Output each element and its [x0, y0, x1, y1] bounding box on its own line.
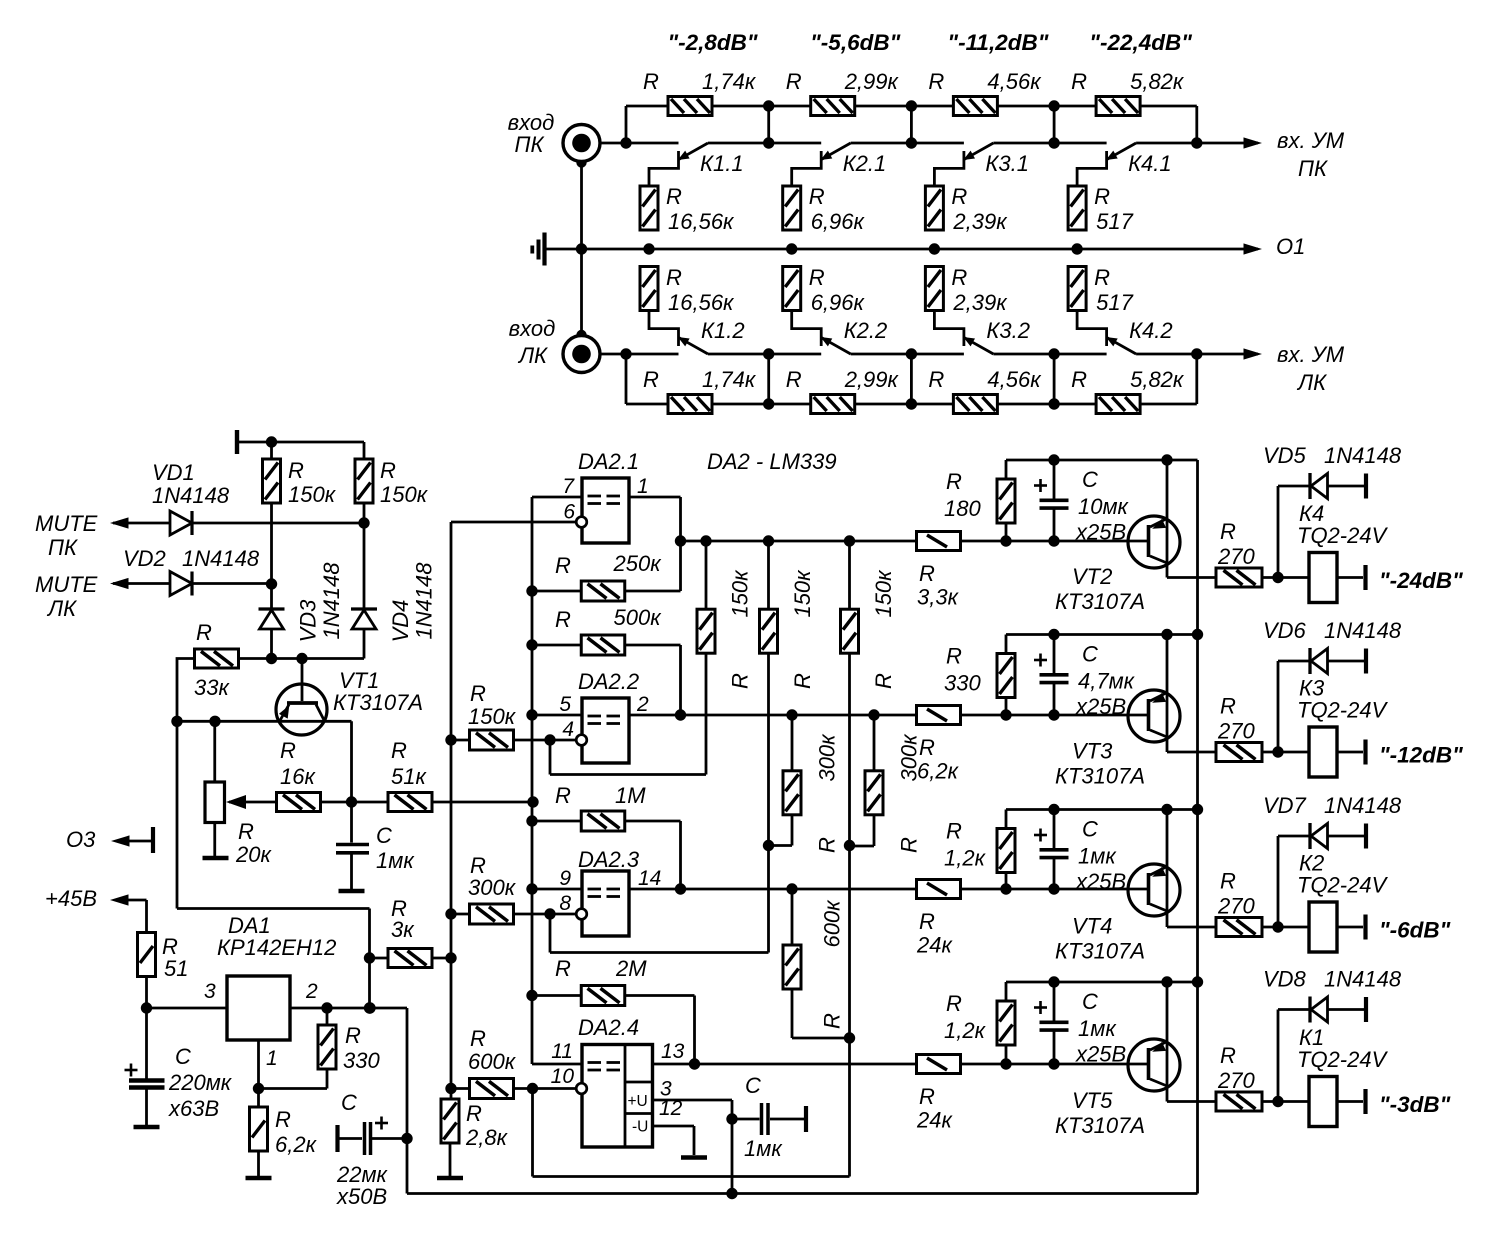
svg-text:8: 8: [559, 892, 571, 915]
svg-text:R: R: [1220, 694, 1236, 719]
svg-text:VD6: VD6: [1263, 618, 1307, 643]
svg-text:1,2к: 1,2к: [944, 846, 987, 871]
svg-text:R: R: [809, 184, 825, 209]
svg-text:"-3dB": "-3dB": [1379, 1092, 1451, 1117]
svg-text:1N4148: 1N4148: [1324, 793, 1402, 818]
svg-text:R: R: [809, 265, 825, 290]
svg-text:R: R: [1220, 519, 1236, 544]
svg-text:VD4: VD4: [388, 600, 413, 643]
svg-text:1N4148: 1N4148: [412, 562, 437, 640]
svg-text:DA2.2: DA2.2: [578, 669, 639, 694]
svg-text:"-11,2dB": "-11,2dB": [947, 30, 1048, 55]
svg-text:270: 270: [1217, 544, 1255, 569]
svg-text:6,96к: 6,96к: [811, 290, 866, 315]
svg-text:4: 4: [562, 718, 574, 741]
svg-text:VD8: VD8: [1263, 967, 1307, 992]
svg-text:33к: 33к: [194, 675, 230, 700]
svg-text:250к: 250к: [613, 551, 663, 576]
svg-text:"-24dB": "-24dB": [1379, 568, 1463, 593]
svg-text:R: R: [1094, 184, 1110, 209]
svg-text:КР142ЕН12: КР142ЕН12: [217, 935, 336, 960]
svg-text:R: R: [951, 184, 967, 209]
svg-text:4,7мк: 4,7мк: [1078, 669, 1136, 694]
svg-text:C: C: [1082, 817, 1098, 842]
svg-text:R: R: [820, 1013, 845, 1029]
svg-text:1мк: 1мк: [1078, 844, 1117, 869]
svg-text:5,82к: 5,82к: [1130, 367, 1185, 392]
svg-text:2,39к: 2,39к: [952, 290, 1008, 315]
svg-text:R: R: [928, 69, 944, 94]
svg-text:VD3: VD3: [296, 599, 321, 643]
svg-text:10: 10: [551, 1065, 575, 1088]
svg-text:VT4: VT4: [1072, 914, 1112, 939]
svg-text:1мк: 1мк: [376, 848, 415, 873]
svg-text:К1.1: К1.1: [700, 151, 744, 176]
svg-text:+U: +U: [628, 1093, 648, 1110]
svg-text:TQ2-24V: TQ2-24V: [1297, 698, 1389, 723]
svg-text:270: 270: [1217, 719, 1255, 744]
svg-text:R: R: [1220, 869, 1236, 894]
svg-text:10мк: 10мк: [1078, 494, 1130, 519]
svg-text:R: R: [946, 469, 962, 494]
svg-text:КТ3107А: КТ3107А: [1055, 589, 1145, 614]
svg-text:VD2: VD2: [123, 546, 166, 571]
svg-text:КТ3107А: КТ3107А: [1055, 939, 1145, 964]
svg-text:R: R: [919, 909, 935, 934]
svg-text:1: 1: [266, 1047, 278, 1070]
svg-text:51к: 51к: [391, 764, 427, 789]
svg-text:R: R: [786, 69, 802, 94]
svg-text:VD5: VD5: [1263, 443, 1307, 468]
svg-text:C: C: [745, 1073, 761, 1098]
svg-text:C: C: [175, 1044, 191, 1069]
svg-text:К3.1: К3.1: [985, 151, 1029, 176]
svg-text:"-2,8dB": "-2,8dB": [667, 30, 757, 55]
svg-text:х25В: х25В: [1075, 694, 1126, 719]
svg-text:330: 330: [944, 671, 981, 696]
svg-text:DA2.4: DA2.4: [578, 1015, 639, 1040]
svg-text:C: C: [341, 1090, 357, 1115]
svg-text:х50В: х50В: [336, 1184, 387, 1209]
svg-text:R: R: [555, 783, 571, 808]
svg-text:150к: 150к: [288, 482, 337, 507]
svg-text:R: R: [643, 367, 659, 392]
svg-text:R: R: [555, 956, 571, 981]
svg-text:13: 13: [661, 1040, 685, 1063]
svg-text:КТ3107А: КТ3107А: [1055, 1113, 1145, 1138]
svg-text:7: 7: [562, 475, 575, 498]
svg-text:150к: 150к: [871, 569, 896, 618]
svg-text:VT3: VT3: [1072, 739, 1113, 764]
svg-text:R: R: [815, 837, 840, 853]
svg-text:1N4148: 1N4148: [182, 546, 260, 571]
svg-text:VD7: VD7: [1263, 793, 1307, 818]
svg-text:1мк: 1мк: [1078, 1016, 1117, 1041]
svg-text:1N4148: 1N4148: [152, 483, 230, 508]
svg-text:517: 517: [1096, 209, 1133, 234]
svg-text:6,2к: 6,2к: [917, 759, 960, 784]
svg-text:КТ3107А: КТ3107А: [1055, 764, 1145, 789]
svg-text:1N4148: 1N4148: [1324, 618, 1402, 643]
svg-text:300к: 300к: [468, 875, 517, 900]
svg-text:MUTE: MUTE: [35, 572, 98, 597]
svg-text:1N4148: 1N4148: [1324, 967, 1402, 992]
svg-text:150к: 150к: [790, 569, 815, 618]
svg-text:VT2: VT2: [1072, 564, 1112, 589]
svg-text:16к: 16к: [280, 764, 316, 789]
svg-text:TQ2-24V: TQ2-24V: [1297, 523, 1389, 548]
svg-text:R: R: [790, 673, 815, 689]
svg-text:3к: 3к: [391, 917, 415, 942]
svg-text:VD1: VD1: [152, 460, 195, 485]
svg-text:150к: 150к: [468, 704, 517, 729]
svg-text:вход: вход: [509, 316, 556, 341]
svg-text:20к: 20к: [235, 842, 272, 867]
svg-text:5: 5: [559, 693, 571, 716]
svg-text:2: 2: [636, 693, 649, 716]
svg-text:16,56к: 16,56к: [668, 290, 735, 315]
svg-text:R: R: [666, 265, 682, 290]
svg-text:ПК: ПК: [1298, 156, 1328, 181]
svg-text:C: C: [1082, 467, 1098, 492]
svg-text:R: R: [555, 553, 571, 578]
svg-text:R: R: [288, 458, 304, 483]
svg-text:R: R: [275, 1107, 291, 1132]
svg-text:2,99к: 2,99к: [844, 367, 900, 392]
svg-text:517: 517: [1096, 290, 1133, 315]
svg-text:1: 1: [637, 475, 649, 498]
svg-text:R: R: [643, 69, 659, 94]
svg-text:ПК: ПК: [48, 535, 78, 560]
svg-text:"-6dB": "-6dB": [1379, 918, 1451, 943]
svg-text:TQ2-24V: TQ2-24V: [1297, 873, 1389, 898]
svg-text:+45В: +45В: [45, 886, 97, 911]
svg-text:3,3к: 3,3к: [917, 585, 960, 610]
svg-text:R: R: [786, 367, 802, 392]
svg-text:1N4148: 1N4148: [319, 562, 344, 640]
svg-text:КТ3107А: КТ3107А: [333, 690, 423, 715]
svg-text:-U: -U: [632, 1119, 648, 1136]
svg-text:ПК: ПК: [515, 132, 545, 157]
svg-text:R: R: [391, 738, 407, 763]
svg-text:24к: 24к: [916, 933, 953, 958]
svg-text:R: R: [946, 991, 962, 1016]
svg-text:R: R: [1220, 1043, 1236, 1068]
svg-text:TQ2-24V: TQ2-24V: [1297, 1047, 1389, 1072]
svg-text:5,82к: 5,82к: [1130, 69, 1185, 94]
svg-text:R: R: [1071, 367, 1087, 392]
svg-text:R: R: [470, 681, 486, 706]
svg-text:6,96к: 6,96к: [811, 209, 866, 234]
svg-text:ЛК: ЛК: [46, 596, 77, 621]
svg-text:R: R: [555, 607, 571, 632]
svg-text:11: 11: [551, 1040, 573, 1063]
svg-text:1мк: 1мк: [744, 1136, 783, 1161]
svg-text:2,8к: 2,8к: [465, 1125, 509, 1150]
svg-text:6: 6: [563, 501, 575, 524]
svg-text:270: 270: [1217, 894, 1255, 919]
svg-text:300к: 300к: [815, 733, 840, 782]
svg-text:150к: 150к: [728, 569, 753, 618]
svg-text:2,99к: 2,99к: [844, 69, 900, 94]
svg-text:К4.1: К4.1: [1128, 151, 1172, 176]
svg-text:VT5: VT5: [1072, 1088, 1113, 1113]
svg-text:C: C: [1082, 642, 1098, 667]
svg-text:R: R: [928, 367, 944, 392]
svg-text:4,56к: 4,56к: [987, 69, 1042, 94]
svg-text:180: 180: [944, 496, 981, 521]
svg-text:DA2.1: DA2.1: [578, 449, 639, 474]
svg-text:R: R: [196, 620, 212, 645]
svg-text:R: R: [946, 819, 962, 844]
svg-text:14: 14: [638, 867, 661, 890]
svg-text:R: R: [280, 738, 296, 763]
svg-text:К4.2: К4.2: [1129, 318, 1173, 343]
svg-text:500к: 500к: [614, 605, 663, 630]
svg-text:4,56к: 4,56к: [987, 367, 1042, 392]
svg-text:К2.1: К2.1: [843, 151, 887, 176]
svg-text:R: R: [466, 1101, 482, 1126]
svg-text:R: R: [897, 837, 922, 853]
svg-text:600к: 600к: [468, 1049, 517, 1074]
svg-text:R: R: [871, 673, 896, 689]
svg-text:600к: 600к: [820, 899, 845, 948]
svg-text:R: R: [1071, 69, 1087, 94]
svg-text:R: R: [946, 644, 962, 669]
svg-text:К3.2: К3.2: [986, 318, 1030, 343]
svg-text:24к: 24к: [916, 1108, 953, 1133]
svg-text:R: R: [951, 265, 967, 290]
svg-text:О1: О1: [1276, 234, 1305, 259]
svg-text:9: 9: [559, 867, 571, 890]
svg-text:220мк: 220мк: [168, 1070, 233, 1095]
svg-text:R: R: [919, 561, 935, 586]
svg-text:6,2к: 6,2к: [275, 1132, 318, 1157]
svg-text:1,2к: 1,2к: [944, 1018, 987, 1043]
svg-text:ЛК: ЛК: [517, 343, 548, 368]
svg-text:х25В: х25В: [1075, 869, 1126, 894]
svg-text:"-22,4dB": "-22,4dB": [1089, 30, 1192, 55]
svg-text:вх. УМ: вх. УМ: [1277, 128, 1345, 153]
svg-text:R: R: [919, 735, 935, 760]
svg-text:C: C: [376, 823, 392, 848]
svg-text:R: R: [919, 1084, 935, 1109]
svg-text:1М: 1М: [615, 783, 646, 808]
svg-text:R: R: [238, 819, 254, 844]
svg-text:1,74к: 1,74к: [702, 69, 757, 94]
svg-text:"-12dB": "-12dB": [1379, 743, 1463, 768]
svg-text:х63В: х63В: [168, 1096, 219, 1121]
svg-text:51: 51: [164, 956, 188, 981]
svg-text:О3: О3: [66, 827, 96, 852]
svg-text:DA2.3: DA2.3: [578, 847, 640, 872]
svg-text:16,56к: 16,56к: [668, 209, 735, 234]
svg-text:х25В: х25В: [1075, 1042, 1126, 1067]
svg-text:х25В: х25В: [1075, 520, 1126, 545]
svg-text:2М: 2М: [615, 956, 647, 981]
svg-text:"-5,6dB": "-5,6dB": [810, 30, 900, 55]
svg-text:R: R: [380, 458, 396, 483]
svg-text:2: 2: [305, 980, 318, 1003]
svg-text:12: 12: [659, 1097, 683, 1120]
svg-text:1,74к: 1,74к: [702, 367, 757, 392]
svg-text:К2.2: К2.2: [844, 318, 888, 343]
svg-text:К1.2: К1.2: [701, 318, 745, 343]
svg-text:1N4148: 1N4148: [1324, 443, 1402, 468]
svg-text:DA2 - LM339: DA2 - LM339: [707, 449, 837, 474]
svg-text:вх. УМ: вх. УМ: [1277, 342, 1345, 367]
svg-text:R: R: [666, 184, 682, 209]
svg-text:3: 3: [204, 980, 216, 1003]
svg-text:R: R: [470, 1026, 486, 1051]
svg-text:R: R: [345, 1023, 361, 1048]
svg-text:330: 330: [343, 1048, 380, 1073]
svg-text:MUTE: MUTE: [35, 511, 98, 536]
svg-text:C: C: [1082, 989, 1098, 1014]
svg-text:150к: 150к: [380, 482, 429, 507]
svg-text:270: 270: [1217, 1068, 1255, 1093]
svg-text:ЛК: ЛК: [1296, 370, 1327, 395]
svg-text:R: R: [1094, 265, 1110, 290]
svg-text:R: R: [728, 673, 753, 689]
svg-text:2,39к: 2,39к: [952, 209, 1008, 234]
